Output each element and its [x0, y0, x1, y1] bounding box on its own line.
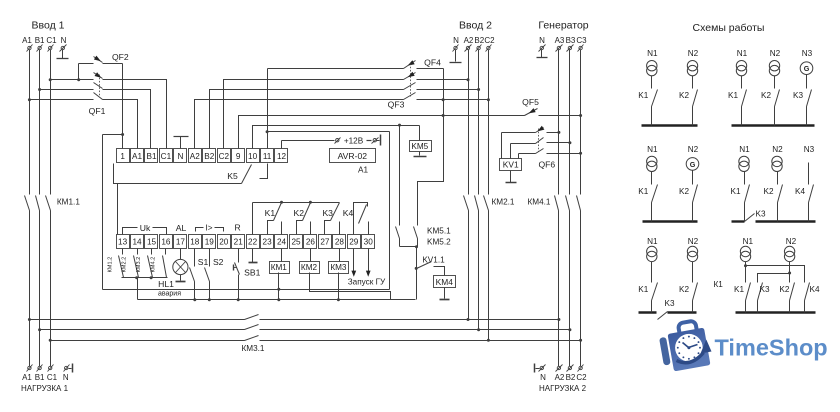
svg-text:S1: S1 [198, 257, 209, 267]
svg-text:НАГРУЗКА 1: НАГРУЗКА 1 [21, 384, 69, 393]
svg-text:C1: C1 [161, 152, 172, 161]
svg-text:A2: A2 [464, 36, 474, 45]
svg-text:B1: B1 [35, 36, 45, 45]
svg-text:НАГРУЗКА 2: НАГРУЗКА 2 [539, 384, 587, 393]
svg-text:КМ3: КМ3 [330, 263, 347, 272]
svg-text:N: N [453, 36, 459, 45]
svg-text:КМ2: КМ2 [301, 263, 318, 272]
svg-text:авария: авария [158, 291, 181, 298]
svg-text:N2: N2 [688, 145, 699, 154]
svg-text:C2: C2 [219, 152, 230, 161]
svg-text:24: 24 [277, 238, 287, 247]
svg-text:K1: K1 [638, 91, 648, 100]
svg-text:R: R [234, 223, 240, 233]
svg-text:21: 21 [234, 238, 244, 247]
svg-text:B1: B1 [146, 152, 156, 161]
svg-text:TimeShop: TimeShop [715, 335, 828, 361]
svg-text:N1: N1 [737, 49, 748, 58]
svg-text:КМ2.1: КМ2.1 [492, 198, 515, 207]
svg-text:KM5: KM5 [411, 142, 428, 151]
svg-text:N: N [61, 36, 67, 45]
svg-text:10: 10 [248, 152, 258, 161]
svg-text:K1: K1 [728, 91, 738, 100]
svg-text:N3: N3 [804, 145, 815, 154]
svg-text:КМ1.1: КМ1.1 [57, 198, 80, 207]
svg-text:KM4: KM4 [436, 277, 454, 287]
svg-text:КМ4.1: КМ4.1 [528, 198, 551, 207]
svg-text:27: 27 [320, 238, 330, 247]
svg-text:Ввод 2: Ввод 2 [459, 20, 492, 32]
svg-text:A1: A1 [22, 36, 32, 45]
svg-text:18: 18 [190, 238, 200, 247]
svg-text:C3: C3 [576, 36, 587, 45]
svg-text:K2: K2 [679, 187, 689, 196]
svg-text:K2: K2 [763, 187, 773, 196]
svg-text:I>: I> [205, 224, 212, 233]
svg-text:A1: A1 [132, 152, 142, 161]
svg-text:14: 14 [132, 238, 142, 247]
svg-text:K1: K1 [265, 208, 276, 218]
svg-text:N: N [63, 373, 69, 382]
svg-text:A1: A1 [22, 373, 32, 382]
svg-text:11: 11 [263, 152, 272, 161]
svg-text:K1: K1 [734, 285, 744, 294]
svg-text:KV1: KV1 [503, 159, 519, 169]
svg-text:K4: K4 [343, 208, 354, 218]
svg-text:B2: B2 [566, 373, 576, 382]
svg-text:9: 9 [236, 152, 241, 161]
svg-text:K4: K4 [795, 187, 805, 196]
svg-text:KM5.1: KM5.1 [427, 227, 451, 236]
svg-text:C1: C1 [47, 373, 58, 382]
svg-text:N1: N1 [739, 145, 750, 154]
svg-text:B2: B2 [204, 152, 214, 161]
svg-text:19: 19 [205, 238, 215, 247]
svg-text:K1: K1 [730, 187, 740, 196]
svg-text:A1: A1 [358, 166, 368, 175]
svg-text:K2: K2 [761, 91, 771, 100]
svg-text:QF1: QF1 [89, 106, 106, 116]
svg-text:Схемы работы: Схемы работы [693, 22, 765, 34]
svg-text:N1: N1 [647, 145, 658, 154]
svg-text:N2: N2 [688, 237, 699, 246]
svg-text:C2: C2 [484, 36, 495, 45]
svg-text:K2: K2 [294, 208, 305, 218]
svg-text:A2: A2 [190, 152, 200, 161]
svg-text:КМ4.2: КМ4.2 [151, 257, 157, 273]
svg-text:K1: K1 [638, 187, 648, 196]
svg-text:Генератор: Генератор [538, 20, 588, 32]
svg-text:28: 28 [335, 238, 345, 247]
svg-text:B3: B3 [566, 36, 576, 45]
svg-text:N1: N1 [647, 237, 658, 246]
svg-text:C1: C1 [46, 36, 57, 45]
svg-text:G: G [690, 160, 696, 169]
svg-text:A3: A3 [555, 36, 565, 45]
svg-text:1: 1 [120, 152, 125, 161]
svg-text:B1: B1 [35, 373, 45, 382]
svg-text:N3: N3 [802, 49, 813, 58]
svg-text:QF5: QF5 [522, 97, 539, 107]
svg-text:QF4: QF4 [424, 57, 441, 67]
svg-text:20: 20 [219, 238, 229, 247]
svg-text:N1: N1 [647, 49, 658, 58]
svg-text:AVR-02: AVR-02 [338, 151, 368, 161]
svg-text:17: 17 [176, 238, 186, 247]
svg-text:12: 12 [277, 152, 287, 161]
svg-text:C2: C2 [576, 373, 587, 382]
svg-text:15: 15 [147, 238, 157, 247]
svg-text:K2: K2 [679, 91, 689, 100]
svg-text:N: N [177, 152, 183, 161]
svg-text:N2: N2 [772, 145, 783, 154]
svg-text:КМ3.1: КМ3.1 [242, 344, 265, 353]
svg-text:K1: K1 [638, 285, 648, 294]
svg-text:S2: S2 [213, 257, 224, 267]
svg-text:K3: K3 [664, 299, 674, 308]
svg-text:B2: B2 [474, 36, 484, 45]
svg-text:N: N [540, 373, 546, 382]
svg-text:K3: K3 [322, 208, 333, 218]
svg-text:+12В: +12В [344, 137, 364, 146]
svg-text:N: N [539, 36, 545, 45]
svg-text:K3: K3 [793, 91, 803, 100]
svg-text:G: G [804, 64, 810, 73]
svg-text:23: 23 [263, 238, 273, 247]
svg-text:26: 26 [306, 238, 316, 247]
svg-text:Запуск ГУ: Запуск ГУ [348, 277, 386, 286]
svg-text:КМ1: КМ1 [271, 263, 288, 272]
svg-text:22: 22 [248, 238, 258, 247]
svg-text:KM5.2: KM5.2 [427, 238, 451, 247]
svg-text:K3: K3 [755, 209, 765, 218]
svg-text:SB1: SB1 [244, 268, 260, 278]
svg-text:КМ1.2: КМ1.2 [107, 257, 113, 273]
svg-text:30: 30 [364, 238, 374, 247]
svg-text:Ввод 1: Ввод 1 [32, 20, 65, 32]
svg-text:KV1.1: KV1.1 [422, 255, 445, 264]
svg-text:29: 29 [349, 238, 359, 247]
svg-text:AL: AL [176, 223, 187, 233]
svg-text:N2: N2 [688, 49, 699, 58]
svg-text:HL1: HL1 [158, 279, 174, 289]
svg-text:13: 13 [118, 238, 128, 247]
svg-text:16: 16 [161, 238, 171, 247]
svg-text:A2: A2 [555, 373, 565, 382]
svg-text:КМ2.2: КМ2.2 [122, 257, 128, 273]
svg-text:K2: K2 [679, 285, 689, 294]
svg-text:25: 25 [291, 238, 301, 247]
svg-text:QF3: QF3 [388, 100, 405, 110]
svg-text:K2: K2 [779, 285, 789, 294]
svg-text:QF2: QF2 [112, 52, 129, 62]
svg-text:K4: K4 [809, 285, 819, 294]
svg-text:N1: N1 [743, 237, 754, 246]
svg-text:Uk: Uk [140, 223, 151, 233]
svg-text:K5: K5 [227, 171, 238, 181]
svg-text:QF6: QF6 [539, 159, 556, 169]
svg-text:КМ3.2: КМ3.2 [136, 257, 142, 273]
svg-text:K3: K3 [759, 285, 769, 294]
svg-text:N2: N2 [786, 237, 797, 246]
svg-text:N2: N2 [770, 49, 781, 58]
svg-text:К1: К1 [714, 280, 724, 289]
